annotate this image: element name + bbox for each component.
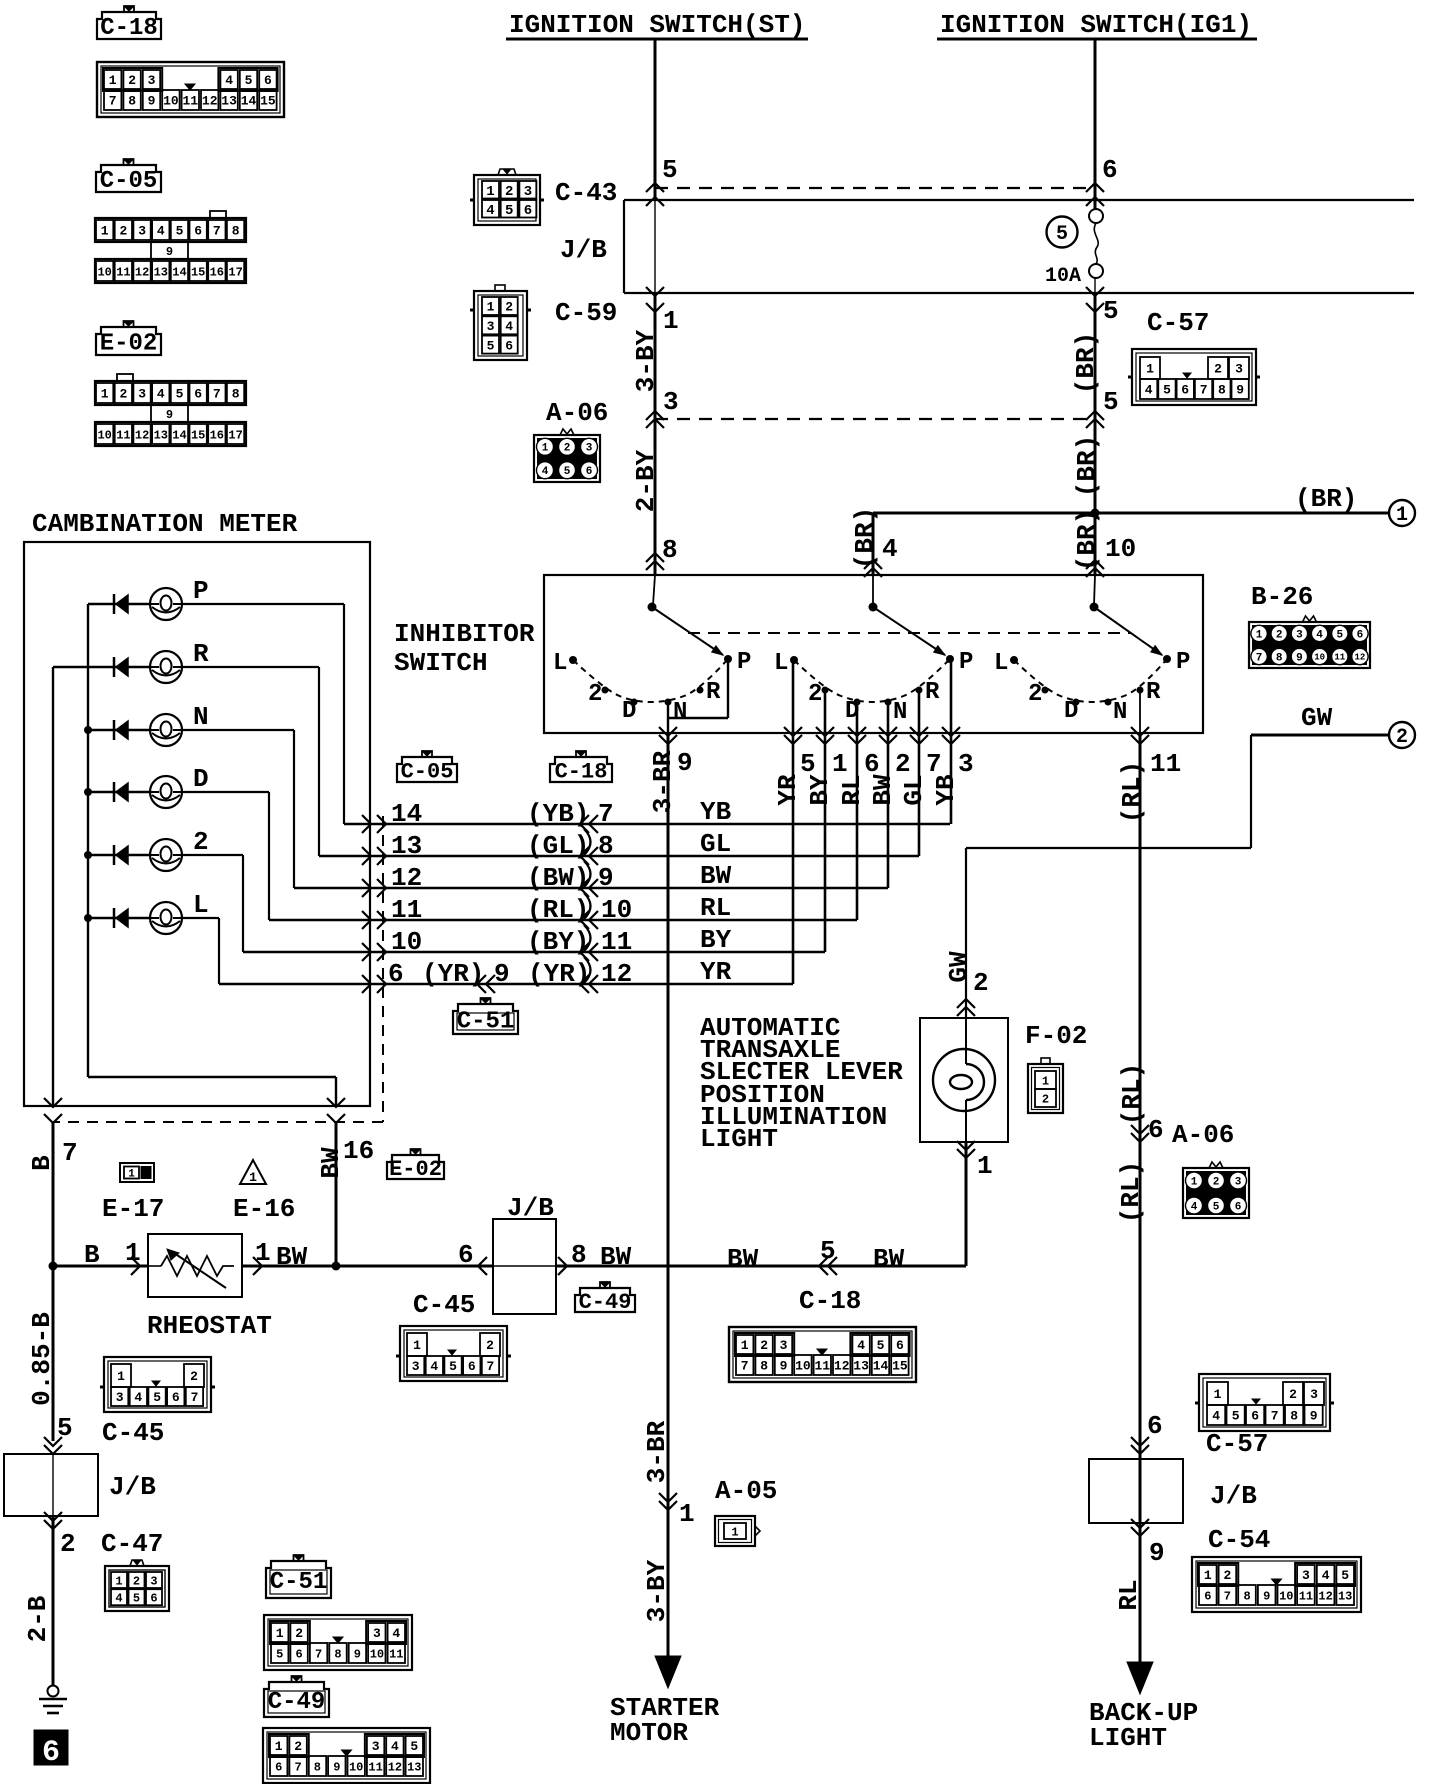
wire inhibitor YR pin 5 [784, 663, 816, 984]
svg-text:BY: BY [700, 925, 732, 955]
svg-text:1: 1 [101, 224, 109, 239]
wire label 3-BY [631, 329, 661, 392]
svg-text:3: 3 [1310, 1387, 1318, 1402]
pin 5 C-57 lower [1086, 387, 1119, 428]
node meter bus L [84, 914, 92, 922]
label C-57 lower [1206, 1429, 1268, 1459]
svg-text:4: 4 [392, 1626, 400, 1641]
svg-text:4: 4 [225, 73, 233, 88]
indicator lamp P [88, 576, 344, 824]
svg-text:6: 6 [1357, 630, 1364, 642]
svg-text:3: 3 [1235, 1177, 1242, 1189]
indicator lamp N [88, 702, 294, 888]
svg-text:11: 11 [814, 1359, 830, 1374]
svg-text:5: 5 [1103, 387, 1119, 417]
svg-text:1: 1 [115, 1574, 122, 1588]
label back-up light [1089, 1698, 1198, 1753]
svg-text:3: 3 [138, 224, 146, 239]
node BR junction [1091, 509, 1100, 518]
svg-text:(RL): (RL) [1116, 1161, 1146, 1223]
label (BR) branch [1295, 484, 1357, 514]
svg-text:(RL): (RL) [1117, 1063, 1147, 1125]
svg-text:J/B: J/B [507, 1193, 554, 1223]
node meter bus D [84, 788, 92, 796]
svg-text:2: 2 [973, 968, 989, 998]
svg-text:R: R [1146, 679, 1161, 706]
svg-text:2: 2 [808, 681, 822, 708]
label A-06 lower [1172, 1120, 1234, 1150]
svg-text:2: 2 [486, 1338, 494, 1353]
svg-text:11: 11 [601, 927, 632, 957]
svg-text:6: 6 [1235, 1202, 1242, 1214]
svg-text:11: 11 [391, 895, 422, 925]
svg-text:2: 2 [1028, 681, 1042, 708]
svg-text:5: 5 [1163, 383, 1171, 398]
svg-text:5: 5 [1336, 630, 1343, 642]
wire lamp to BW line [957, 1141, 993, 1266]
wire meter pin16 BW [316, 1077, 374, 1266]
svg-text:12: 12 [1354, 653, 1365, 663]
svg-text:14: 14 [172, 428, 186, 442]
wire label YB [931, 774, 961, 806]
meter row 12 BW [294, 861, 888, 897]
connector E-02 icon topleft [95, 374, 246, 446]
svg-text:1: 1 [117, 1369, 125, 1384]
ground G [39, 1686, 67, 1714]
svg-text:10A: 10A [1045, 265, 1081, 288]
svg-text:11: 11 [182, 94, 198, 109]
svg-text:LIGHT: LIGHT [1089, 1723, 1167, 1753]
svg-text:4: 4 [157, 224, 165, 239]
svg-text:12: 12 [834, 1359, 850, 1374]
svg-text:9: 9 [598, 863, 614, 893]
svg-text:2: 2 [1276, 630, 1283, 642]
svg-text:9: 9 [1263, 1589, 1270, 1603]
svg-text:(RL): (RL) [1117, 761, 1147, 823]
svg-text:C-43: C-43 [555, 178, 617, 208]
dashed link A-06 [655, 418, 1095, 420]
connector C-57 icon upper [1128, 349, 1260, 405]
svg-text:12: 12 [1318, 1589, 1332, 1603]
svg-text:(BR): (BR) [1071, 332, 1101, 394]
svg-text:2: 2 [760, 1338, 768, 1353]
svg-text:14: 14 [172, 265, 186, 279]
label J/B mid [507, 1193, 554, 1223]
svg-text:C-49: C-49 [268, 1689, 326, 1716]
svg-text:2: 2 [295, 1626, 303, 1641]
fuse 5 10A [1089, 209, 1103, 278]
terminal 1 circled [1389, 500, 1415, 527]
svg-text:C-18: C-18 [100, 15, 158, 42]
svg-text:GL: GL [700, 829, 731, 859]
svg-text:1: 1 [1204, 1568, 1212, 1583]
svg-text:1: 1 [101, 387, 109, 402]
svg-text:SWITCH: SWITCH [394, 648, 488, 678]
svg-text:BW: BW [700, 861, 732, 891]
svg-text:10: 10 [97, 428, 111, 442]
wire label 3-BR b [642, 1420, 672, 1483]
svg-text:9: 9 [148, 94, 156, 109]
wire inhibitor pin4 [872, 513, 875, 605]
svg-text:C-51: C-51 [457, 1009, 515, 1036]
svg-text:4: 4 [882, 534, 898, 564]
svg-text:1: 1 [741, 1338, 749, 1353]
svg-text:7: 7 [62, 1138, 78, 1168]
wire meter pin7 B [27, 1098, 78, 1266]
connector C-43 icon [470, 169, 544, 225]
wire label BY [805, 774, 835, 806]
inhibitor wafer ST [553, 603, 751, 727]
svg-text:13: 13 [221, 94, 237, 109]
svg-text:3: 3 [148, 73, 156, 88]
wire label 3-BR a [648, 750, 678, 813]
svg-text:BW: BW [316, 1147, 346, 1179]
svg-text:A-06: A-06 [546, 398, 608, 428]
svg-text:YB: YB [931, 774, 961, 806]
svg-text:6: 6 [295, 1647, 302, 1661]
svg-text:1: 1 [128, 1169, 135, 1181]
pin 6 C-43 [1086, 155, 1118, 206]
label rheostat [147, 1311, 272, 1341]
svg-text:2: 2 [1214, 362, 1222, 377]
connector C-51 icon bottom [264, 1615, 412, 1670]
svg-text:6: 6 [1102, 155, 1118, 185]
svg-text:5: 5 [877, 1338, 885, 1353]
svg-text:3-BY: 3-BY [642, 1559, 672, 1622]
svg-text:6: 6 [1204, 1589, 1211, 1603]
svg-text:MOTOR: MOTOR [610, 1718, 688, 1748]
svg-text:17: 17 [228, 428, 242, 442]
svg-text:5: 5 [1341, 1568, 1349, 1583]
wire label (RL) c [1116, 1161, 1146, 1223]
svg-text:(YR): (YR) [422, 959, 484, 989]
svg-text:6: 6 [194, 387, 202, 402]
svg-text:4: 4 [486, 203, 494, 219]
pin 6 A-06 lower [1131, 1115, 1164, 1145]
svg-text:5: 5 [1103, 296, 1119, 326]
svg-text:6: 6 [275, 1760, 282, 1774]
svg-text:6: 6 [150, 1592, 157, 1606]
svg-text:7: 7 [109, 94, 117, 109]
svg-text:BW: BW [600, 1242, 632, 1272]
svg-text:9: 9 [780, 1359, 788, 1374]
svg-text:1: 1 [1214, 1387, 1222, 1402]
svg-text:4: 4 [1191, 1202, 1198, 1214]
svg-text:3: 3 [138, 387, 146, 402]
svg-text:12: 12 [388, 1760, 402, 1774]
svg-text:YR: YR [700, 957, 732, 987]
svg-text:1: 1 [275, 1739, 283, 1754]
svg-text:6: 6 [1147, 1411, 1163, 1441]
svg-text:2: 2 [190, 1369, 198, 1384]
connector C-59 icon [470, 285, 531, 360]
tag E-02 topleft [96, 321, 161, 358]
svg-text:BY: BY [805, 774, 835, 806]
svg-text:3: 3 [1296, 630, 1303, 642]
junction block J/B right [1089, 1459, 1183, 1523]
combination meter box [24, 542, 370, 1106]
svg-text:GW: GW [1301, 703, 1333, 733]
svg-text:11: 11 [116, 428, 130, 442]
svg-text:YB: YB [700, 797, 732, 827]
tag C-49 mid [575, 1282, 635, 1315]
svg-text:7: 7 [213, 387, 221, 402]
label selector illumination [700, 1013, 903, 1154]
chevron rheostat out [253, 1238, 308, 1275]
tag E-02 mid [387, 1149, 444, 1182]
wire label (BR) d [1072, 509, 1102, 571]
svg-text:8: 8 [1276, 653, 1283, 665]
svg-text:6: 6 [458, 1240, 474, 1270]
svg-text:C-57: C-57 [1206, 1429, 1268, 1459]
svg-text:17: 17 [228, 265, 242, 279]
svg-text:13: 13 [853, 1359, 869, 1374]
meter row 13 GL [319, 829, 919, 865]
wire inhibitor BW pin 2 [879, 705, 911, 888]
svg-text:5: 5 [276, 1647, 283, 1661]
svg-text:1: 1 [1042, 1074, 1049, 1088]
tag C-05 rows [397, 751, 457, 784]
wire label 2-BY [631, 449, 661, 512]
svg-text:GL: GL [899, 774, 929, 805]
svg-text:12: 12 [601, 959, 632, 989]
svg-text:3: 3 [1302, 1568, 1310, 1583]
svg-text:5: 5 [133, 1592, 140, 1606]
svg-text:C-18: C-18 [555, 759, 608, 784]
svg-text:7: 7 [1224, 1589, 1231, 1603]
pin 1 C-59 [646, 287, 679, 336]
label E-17 [102, 1194, 164, 1224]
wire GW to lamp [944, 951, 989, 1016]
wire inhibitor GL pin 7 [910, 693, 942, 856]
svg-text:YR: YR [773, 774, 803, 806]
label C-54 [1208, 1525, 1270, 1555]
connector C-45 icon left [100, 1357, 215, 1412]
svg-text:4: 4 [1316, 630, 1323, 642]
svg-text:2: 2 [133, 1574, 140, 1588]
svg-text:N: N [673, 699, 687, 726]
svg-text:C-05: C-05 [401, 759, 454, 784]
svg-text:2: 2 [60, 1529, 76, 1559]
svg-text:2-B: 2-B [23, 1595, 53, 1642]
svg-text:3-BR: 3-BR [648, 750, 678, 813]
svg-text:1: 1 [663, 306, 679, 336]
svg-text:B: B [84, 1240, 100, 1270]
svg-text:3: 3 [372, 1739, 380, 1754]
svg-text:5: 5 [487, 338, 495, 353]
svg-text:J/B: J/B [109, 1472, 156, 1502]
svg-text:D: D [1064, 698, 1078, 725]
node BW pin16 junction [332, 1262, 341, 1271]
svg-text:16: 16 [343, 1136, 374, 1166]
svg-text:5: 5 [176, 224, 184, 239]
label C-57 upper [1147, 308, 1209, 338]
svg-text:3-BR: 3-BR [642, 1420, 672, 1483]
svg-text:13: 13 [154, 265, 168, 279]
svg-text:5: 5 [505, 203, 513, 219]
svg-text:3: 3 [524, 184, 532, 200]
label B wire [84, 1238, 141, 1270]
svg-text:2: 2 [294, 1739, 302, 1754]
svg-text:3: 3 [586, 443, 593, 455]
svg-text:10: 10 [349, 1760, 363, 1774]
wire label (RL) b [1117, 1063, 1147, 1125]
svg-text:A-06: A-06 [1172, 1120, 1234, 1150]
svg-text:E-17: E-17 [102, 1194, 164, 1224]
svg-text:IGNITION SWITCH(ST): IGNITION SWITCH(ST) [509, 10, 805, 40]
meter row 6 YR [219, 957, 793, 993]
svg-text:8: 8 [571, 1240, 587, 1270]
label A-05 [715, 1476, 777, 1506]
svg-text:5: 5 [410, 1739, 418, 1754]
indicator lamp L [88, 890, 219, 984]
svg-text:CAMBINATION METER: CAMBINATION METER [32, 509, 298, 539]
svg-text:9: 9 [1236, 383, 1244, 398]
svg-text:9: 9 [166, 245, 173, 259]
svg-text:11: 11 [1334, 653, 1345, 663]
svg-text:12: 12 [135, 265, 149, 279]
svg-text:C-05: C-05 [100, 168, 158, 195]
rheostat R1 [148, 1234, 242, 1297]
svg-text:3: 3 [116, 1390, 124, 1405]
svg-text:2: 2 [505, 184, 513, 200]
svg-text:3: 3 [1235, 362, 1243, 377]
svg-text:10: 10 [370, 1647, 384, 1661]
svg-text:14: 14 [873, 1359, 889, 1374]
svg-text:6: 6 [505, 338, 513, 353]
inhibitor wafer MID [774, 603, 973, 727]
svg-text:6: 6 [1251, 1409, 1259, 1424]
svg-text:4: 4 [857, 1338, 865, 1353]
connector C-47 icon [105, 1560, 169, 1611]
fuse number 5 circled [1047, 217, 1078, 248]
wire label YR [773, 774, 803, 806]
svg-text:11: 11 [368, 1760, 382, 1774]
wire BW main [242, 1265, 966, 1268]
pin 6 J/B [458, 1240, 487, 1275]
svg-text:D: D [193, 764, 209, 794]
terminal 2 circled [1389, 722, 1415, 749]
svg-text:8: 8 [1243, 1589, 1250, 1603]
svg-text:13: 13 [154, 428, 168, 442]
connector C-18 icon bottom [729, 1327, 916, 1382]
node meter bus N [84, 726, 92, 734]
wire GW branch [966, 735, 1389, 1018]
svg-text:16: 16 [210, 428, 224, 442]
svg-text:(BR): (BR) [1295, 484, 1357, 514]
label B-26 [1251, 582, 1313, 612]
svg-text:10: 10 [163, 94, 179, 109]
svg-text:7: 7 [294, 1760, 301, 1774]
svg-text:9: 9 [677, 748, 693, 778]
svg-text:7: 7 [213, 224, 221, 239]
svg-text:C-18: C-18 [799, 1286, 861, 1316]
label inhibitor switch [394, 619, 535, 678]
svg-text:7: 7 [741, 1359, 749, 1374]
svg-text:12: 12 [391, 863, 422, 893]
svg-text:4: 4 [505, 319, 513, 334]
svg-text:P: P [959, 649, 973, 676]
label J/B top [560, 235, 607, 265]
svg-text:10: 10 [391, 927, 422, 957]
pin 9 C-54 [1131, 1519, 1165, 1568]
svg-text:8: 8 [760, 1359, 768, 1374]
svg-text:9: 9 [494, 959, 510, 989]
svg-text:1: 1 [1191, 1177, 1198, 1189]
label GW branch [1301, 703, 1333, 733]
label C-43 [555, 178, 617, 208]
svg-text:F-02: F-02 [1025, 1021, 1087, 1051]
svg-text:(BR): (BR) [1072, 435, 1102, 497]
inhibitor wafer IG1 [994, 603, 1190, 727]
svg-text:1: 1 [486, 184, 494, 200]
svg-text:13: 13 [391, 831, 422, 861]
svg-text:6: 6 [172, 1390, 180, 1405]
svg-text:LIGHT: LIGHT [700, 1124, 778, 1154]
dashed link C-43 [655, 187, 1095, 189]
connector C-57 icon lower [1195, 1374, 1334, 1431]
svg-text:D: D [622, 698, 636, 725]
svg-text:10: 10 [1105, 534, 1136, 564]
svg-text:6: 6 [468, 1359, 476, 1374]
svg-text:R: R [925, 679, 940, 706]
label C-47 [101, 1529, 163, 1559]
svg-text:8: 8 [314, 1760, 321, 1774]
connector F-02 icon [1028, 1058, 1063, 1113]
svg-text:(BR): (BR) [850, 507, 880, 569]
node meter bus 2 [84, 851, 92, 859]
svg-text:6: 6 [586, 466, 593, 478]
wire label (BR) a [1071, 332, 1101, 394]
svg-text:2: 2 [564, 443, 571, 455]
svg-text:11: 11 [389, 1647, 403, 1661]
wire B down [27, 1266, 73, 1454]
wire label 3-BY b [642, 1559, 672, 1622]
svg-text:1: 1 [1396, 504, 1408, 527]
svg-text:1: 1 [731, 1525, 738, 1539]
wire label BW [868, 774, 898, 806]
wire ST feed [653, 39, 655, 605]
svg-text:RHEOSTAT: RHEOSTAT [147, 1311, 272, 1341]
wire label (RL) a [1117, 761, 1147, 823]
svg-text:6: 6 [388, 959, 404, 989]
pin 1 A-05 [659, 1493, 695, 1529]
svg-text:10: 10 [1314, 653, 1325, 663]
svg-text:RL: RL [1114, 1579, 1144, 1610]
svg-text:9: 9 [166, 408, 173, 422]
svg-text:2: 2 [1289, 1387, 1297, 1402]
svg-text:R: R [706, 679, 721, 706]
pin 10 inhibitor [1086, 534, 1136, 577]
pin 8 J/B [558, 1240, 632, 1275]
svg-text:8: 8 [662, 535, 678, 565]
pin 8 inhibitor [646, 535, 678, 570]
svg-text:J/B: J/B [560, 235, 607, 265]
svg-text:14: 14 [241, 94, 257, 109]
svg-text:2: 2 [193, 827, 209, 857]
pin 9 label [677, 748, 693, 778]
svg-text:3: 3 [487, 319, 495, 334]
svg-text:16: 16 [210, 265, 224, 279]
svg-text:J/B: J/B [1210, 1481, 1257, 1511]
svg-text:8: 8 [1218, 383, 1226, 398]
wire label (BR) c [850, 507, 880, 569]
svg-text:15: 15 [191, 428, 205, 442]
svg-text:4: 4 [157, 387, 165, 402]
svg-text:15: 15 [191, 265, 205, 279]
svg-text:14: 14 [391, 799, 422, 829]
svg-text:P: P [1176, 649, 1190, 676]
